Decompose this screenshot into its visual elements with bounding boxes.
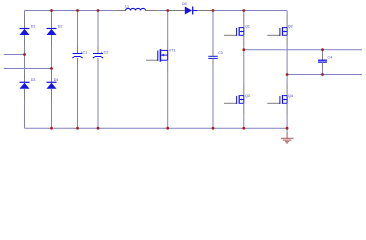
wire C1 leg xyxy=(77,11,79,47)
svg-text:D1: D1 xyxy=(31,25,36,29)
svg-text:D2: D2 xyxy=(58,25,63,29)
wire C3 leg xyxy=(212,11,214,50)
wire Q1 drain xyxy=(243,11,245,15)
diode D2 xyxy=(51,16,53,29)
wire Q3 source xyxy=(243,103,245,114)
transistor Q1 xyxy=(224,34,236,36)
svg-text:VT1: VT1 xyxy=(169,49,176,53)
wire line1 to Q3 drain xyxy=(243,50,245,84)
wire Q4 source xyxy=(286,103,288,114)
transistor Q3 xyxy=(224,102,236,104)
wire ac input line 2 xyxy=(4,68,52,70)
wire bridge right leg xyxy=(51,11,53,16)
capacitor C4 xyxy=(322,54,324,60)
node bottom rail junctions xyxy=(50,127,53,130)
inductor L1 xyxy=(115,10,126,12)
svg-text:D5: D5 xyxy=(182,2,187,6)
transistor Q2 xyxy=(267,34,279,36)
wire top rail between L1 and V1 node xyxy=(157,10,168,12)
node top rail junctions xyxy=(50,9,53,12)
svg-text:Q4: Q4 xyxy=(288,94,293,98)
wire Q1 source to line1 xyxy=(243,35,245,46)
svg-text:C4: C4 xyxy=(328,56,333,60)
svg-text:C3: C3 xyxy=(218,51,223,55)
wire output line 2 xyxy=(287,74,362,76)
svg-text:L1: L1 xyxy=(125,5,129,9)
diode D1 xyxy=(24,16,26,29)
diode D3 xyxy=(24,71,26,82)
svg-text:D3: D3 xyxy=(31,78,36,82)
diode D5 xyxy=(168,10,185,12)
wire V1 source xyxy=(167,60,169,72)
svg-text:Q3: Q3 xyxy=(245,94,250,98)
capacitor C2 xyxy=(97,47,99,54)
transistor Q4 xyxy=(267,102,279,104)
wire line2 to Q4 drain xyxy=(286,75,288,84)
wire C4 leg xyxy=(322,50,324,54)
svg-text:D4: D4 xyxy=(54,78,59,82)
wire ac input line 1 xyxy=(4,54,25,56)
wire C2 leg xyxy=(97,11,99,47)
wire Q2 drain xyxy=(286,11,288,15)
svg-text:Q1: Q1 xyxy=(245,24,250,28)
transistor VT1 xyxy=(146,59,157,61)
svg-text:Q2: Q2 xyxy=(288,24,293,28)
node ac input junctions xyxy=(23,53,26,56)
node output line1 junctions xyxy=(242,48,245,51)
capacitor C1 xyxy=(77,47,79,54)
capacitor C3 xyxy=(212,50,214,57)
node output line2 junctions xyxy=(286,73,289,76)
wire bottom rail xyxy=(25,127,288,129)
wire top rail left section xyxy=(25,10,115,12)
diode D4 xyxy=(51,71,53,82)
ground xyxy=(286,128,288,132)
wire top rail right section xyxy=(213,10,287,12)
svg-text:+ C2: + C2 xyxy=(101,50,109,54)
wire output line 1 xyxy=(244,49,362,51)
wire Q2 source to line2 xyxy=(286,35,288,46)
wire V1 drain xyxy=(167,11,169,41)
wire bridge left leg xyxy=(24,11,26,16)
svg-text:+C1: +C1 xyxy=(81,50,88,54)
